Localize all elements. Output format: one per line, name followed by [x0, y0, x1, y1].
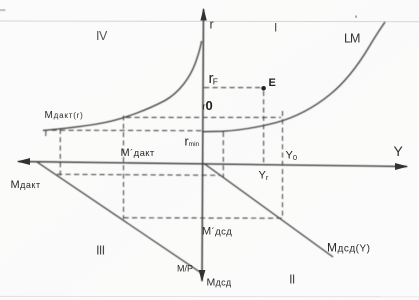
- svg-text:М´дакт: М´дакт: [121, 147, 155, 159]
- svg-text:LM: LM: [344, 32, 360, 46]
- svg-text:III: III: [96, 243, 105, 258]
- svg-text:F: F: [213, 77, 218, 87]
- svg-text:I: I: [274, 21, 277, 35]
- svg-text:IV: IV: [96, 29, 108, 43]
- svg-text:Y: Y: [394, 143, 404, 159]
- svg-text:0: 0: [206, 98, 213, 113]
- svg-text:': ': [355, 14, 357, 26]
- svg-text:Мдсд(Y): Мдсд(Y): [327, 241, 371, 255]
- svg-text:r: r: [210, 18, 214, 32]
- svg-text:Мдакт(r): Мдакт(r): [45, 110, 84, 121]
- svg-text:Мдакт: Мдакт: [11, 179, 41, 191]
- svg-text:II: II: [289, 272, 295, 287]
- svg-text:E: E: [269, 77, 276, 89]
- svg-text:Мдсд: Мдсд: [207, 277, 232, 289]
- svg-text:М/Р: М/Р: [177, 264, 193, 274]
- svg-text:М´дсд: М´дсд: [202, 226, 232, 238]
